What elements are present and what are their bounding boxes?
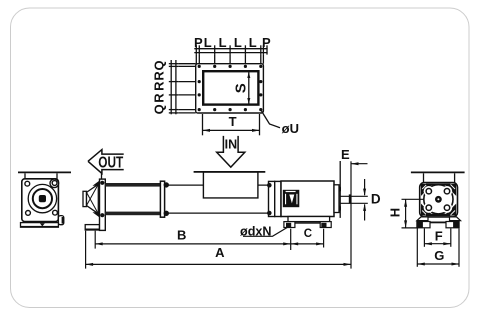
svg-text:R: R [151,71,166,81]
svg-text:E: E [341,147,350,162]
svg-text:Q: Q [151,60,166,70]
svg-text:B: B [177,228,186,243]
svg-text:L: L [219,35,227,50]
svg-text:D: D [371,192,381,207]
svg-text:R: R [151,93,166,103]
svg-text:F: F [435,228,443,243]
svg-text:P: P [262,35,271,50]
svg-text:H: H [388,208,403,217]
svg-text:Q: Q [151,104,166,114]
svg-text:IN: IN [225,137,238,151]
svg-text:L: L [234,35,242,50]
svg-text:T: T [229,114,237,129]
svg-text:S: S [232,83,249,93]
svg-text:G: G [434,248,444,263]
svg-text:P: P [194,35,203,50]
svg-text:OUT: OUT [98,155,123,172]
svg-text:A: A [215,245,225,260]
svg-text:øU: øU [282,121,299,136]
svg-text:R: R [151,81,166,91]
svg-text:L: L [204,35,212,50]
svg-text:ødxN: ødxN [240,224,272,239]
svg-text:L: L [249,35,257,50]
svg-text:C: C [304,228,312,240]
